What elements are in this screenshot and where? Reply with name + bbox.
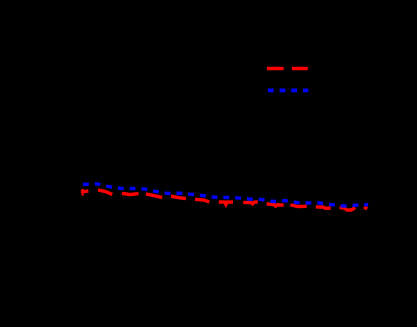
blue dotted data series bbox=[83, 184, 368, 206]
red dash 4 bbox=[146, 194, 162, 198]
red dash 7 bbox=[219, 202, 233, 205]
red dash 5 bbox=[171, 196, 186, 198]
legend red dashed line sample bbox=[267, 67, 308, 70]
red dash 13 bbox=[364, 207, 367, 209]
red dash 2 bbox=[98, 190, 112, 194]
red dash 8 bbox=[243, 202, 258, 204]
red dashed data series, dash 1 with start hook bbox=[81, 189, 367, 210]
red dash 12 bbox=[340, 207, 356, 210]
red dash 1 bbox=[81, 189, 89, 193]
red dash 11 bbox=[316, 207, 331, 208]
red dash 9 bbox=[267, 204, 284, 206]
red dash 6 bbox=[195, 199, 209, 202]
red dash 10 bbox=[290, 205, 306, 207]
legend blue dotted line sample bbox=[268, 89, 308, 93]
red dash 3 bbox=[122, 193, 139, 194]
